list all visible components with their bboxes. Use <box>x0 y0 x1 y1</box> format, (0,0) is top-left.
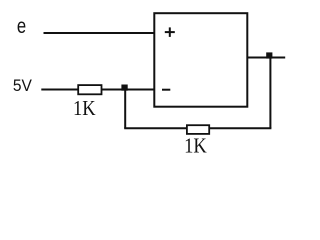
op-amp U1 box <box>154 13 247 107</box>
op-amp - input label <box>162 89 170 91</box>
wire R1 to - input <box>102 89 156 91</box>
svg-text:1K: 1K <box>73 96 96 120</box>
wire feedback bottom right segment <box>209 127 271 129</box>
svg-text:e: e <box>17 15 26 38</box>
wire feedback bottom left segment <box>124 127 187 129</box>
op-amp + input label <box>165 27 175 37</box>
wire feedback up to output node <box>269 56 271 128</box>
svg-text:1K: 1K <box>184 133 207 157</box>
junction node at output <box>266 52 272 58</box>
wire e to + input <box>44 32 156 34</box>
wire op-amp output <box>247 57 285 59</box>
svg-text:5V: 5V <box>13 77 32 95</box>
resistor R2 <box>187 125 209 134</box>
wire 5V to resistor R1 <box>41 89 78 91</box>
junction node at - input <box>121 85 127 91</box>
wire junction down <box>124 89 126 128</box>
resistor R1 <box>78 85 101 94</box>
